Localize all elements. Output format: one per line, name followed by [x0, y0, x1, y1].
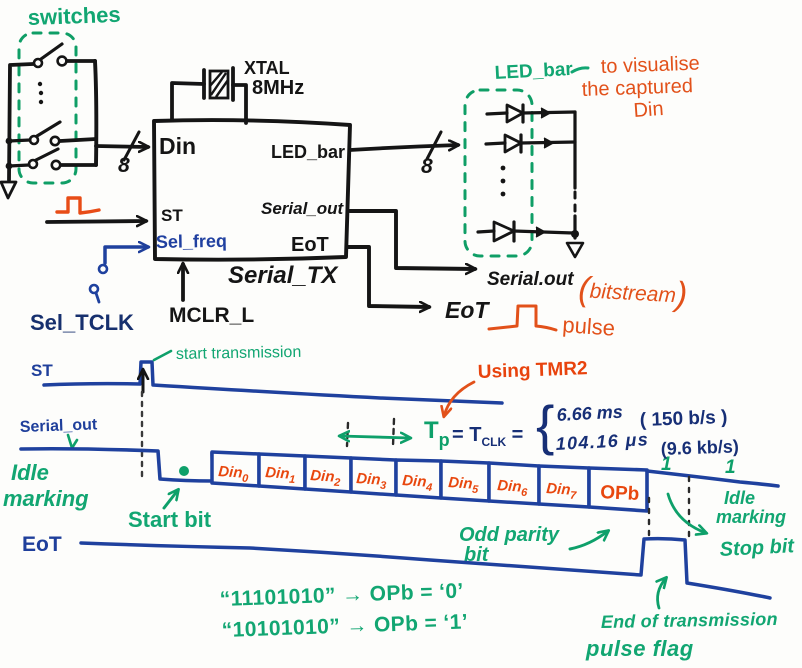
- LED D2: [486, 135, 575, 152]
- bit box Din2: [305, 456, 351, 492]
- svg-text:LED_bar: LED_bar: [271, 142, 345, 162]
- svg-text:Start bit: Start bit: [128, 507, 212, 532]
- pulse icon ST (orange): [57, 198, 99, 213]
- svg-text:marking: marking: [3, 486, 89, 511]
- svg-text:start transmission: start transmission: [176, 344, 302, 363]
- svg-text:End of transmission: End of transmission: [601, 609, 778, 632]
- wire ST arrow: [47, 221, 146, 222]
- wire left rail: [9, 64, 33, 180]
- arrow ST rising edge: [142, 370, 145, 392]
- wire S2 to rail: [60, 139, 96, 141]
- svg-text:8MHz: 8MHz: [252, 77, 304, 99]
- svg-text:to visualise: to visualise: [600, 53, 700, 78]
- svg-text:( 150 b/s ): ( 150 b/s ): [639, 407, 727, 431]
- LED D1: [487, 105, 575, 122]
- svg-text:EoT: EoT: [445, 297, 490, 323]
- svg-text:XTAL: XTAL: [244, 58, 290, 78]
- annotation start transmission arrow: [154, 351, 171, 360]
- wire switch S1 to right rail: [67, 59, 95, 63]
- guide dashed ST to start bit: [141, 392, 143, 478]
- wire Serial_out: [350, 211, 475, 269]
- wire S3 to rail: [61, 163, 96, 167]
- svg-text:MCLR_L: MCLR_L: [169, 304, 254, 327]
- bus width slash: [124, 132, 139, 160]
- svg-text:ST: ST: [161, 206, 183, 225]
- svg-text:the captured: the captured: [581, 75, 693, 101]
- waveform EoT: [81, 539, 770, 598]
- wire EoT: [347, 247, 429, 307]
- wire xtal right lead: [233, 85, 246, 123]
- svg-text:Stop bit: Stop bit: [719, 535, 796, 561]
- node junction S2: [6, 138, 13, 145]
- switch S1: [34, 44, 66, 67]
- svg-text:LED_bar: LED_bar: [494, 59, 574, 84]
- green tail stroke: [572, 68, 588, 72]
- wire cathode rail dashed: [574, 192, 577, 214]
- svg-text:Odd parity: Odd parity: [459, 524, 560, 546]
- switches enclosure (green dashed): [19, 33, 76, 183]
- svg-text:Din: Din: [159, 133, 196, 159]
- arrow odd parity to OPb: [570, 531, 608, 549]
- svg-text:Serial.out: Serial.out: [487, 269, 574, 290]
- waveform ST: [44, 362, 502, 403]
- svg-text:8: 8: [421, 155, 433, 178]
- svg-text:{: {: [536, 394, 554, 456]
- wire Din bus: [96, 146, 148, 147]
- svg-text:OPb: OPb: [600, 482, 640, 505]
- measure arrow Tp: [340, 436, 410, 438]
- svg-text:ST: ST: [31, 361, 53, 380]
- switch S3: [29, 149, 60, 169]
- guide dashed stop bit right: [688, 477, 690, 538]
- bit box Din4: [396, 460, 441, 498]
- svg-text:Sel_freq: Sel_freq: [156, 231, 227, 252]
- wire to S2: [9, 140, 30, 141]
- bit box Din0: [212, 452, 259, 486]
- crystal X1: [204, 68, 233, 100]
- wire cathode rail lower: [573, 216, 576, 238]
- tick dashed right: [393, 419, 394, 446]
- arrow to stop bit: [668, 494, 706, 533]
- guide dashed stop bit left: [648, 498, 650, 540]
- bit box Din3: [351, 458, 396, 495]
- wire MCLR_L arrow: [181, 264, 185, 300]
- svg-text:EoT: EoT: [291, 234, 329, 256]
- svg-text:Idle: Idle: [724, 488, 755, 508]
- node junction S3: [6, 163, 13, 170]
- wire LED_bar bus: [350, 145, 458, 150]
- LED D8: [478, 222, 573, 241]
- arrow to EoT pulse: [658, 578, 666, 608]
- wire to S3: [9, 165, 29, 166]
- wire Sel_freq (blue): [105, 247, 148, 263]
- svg-text:6.66 ms: 6.66 ms: [556, 402, 623, 425]
- arrow TMR2 to Tp: [444, 382, 474, 416]
- ellipsis dots: [38, 82, 43, 104]
- svg-text:1: 1: [725, 457, 736, 478]
- svg-text:Serial_out: Serial_out: [20, 416, 99, 436]
- wire xtal left lead: [172, 83, 204, 120]
- waveform Serial_out idle and start bit: [21, 449, 213, 481]
- svg-text:Sel_TCLK: Sel_TCLK: [30, 310, 134, 335]
- LED bar enclosure (green dashed): [465, 90, 532, 256]
- tick mark: [68, 435, 77, 448]
- svg-text:Serial_TX: Serial_TX: [228, 262, 339, 289]
- ground: [1, 182, 16, 198]
- svg-text:switches: switches: [27, 2, 121, 30]
- switch S2: [30, 122, 60, 145]
- svg-text:8: 8: [118, 154, 130, 177]
- svg-text:Din: Din: [633, 98, 664, 122]
- svg-text:Serial_out: Serial_out: [261, 199, 345, 218]
- bit box Din1: [259, 454, 305, 489]
- node start bit dot: [179, 466, 189, 476]
- bit box Din5: [441, 461, 489, 501]
- bit box OPb: [589, 468, 647, 511]
- svg-text:EoT: EoT: [22, 533, 62, 556]
- svg-text:marking: marking: [716, 507, 786, 527]
- svg-text:pulse: pulse: [562, 312, 616, 341]
- waveform idle after OPb: [647, 471, 778, 486]
- ellipsis dots: [501, 166, 506, 197]
- bus width slash: [427, 132, 441, 159]
- svg-text:Using TMR2: Using TMR2: [477, 358, 587, 383]
- block U1 Serial_TX: [154, 120, 350, 260]
- node junction rail: [571, 230, 579, 238]
- wire right rail: [95, 61, 96, 165]
- pulse icon EoT (orange): [489, 306, 556, 330]
- svg-text:(9.6 kb/s): (9.6 kb/s): [660, 436, 739, 459]
- svg-text:pulse flag: pulse flag: [585, 636, 694, 661]
- svg-text:Idle: Idle: [11, 460, 49, 485]
- wire cathode rail: [573, 112, 576, 188]
- switch Sel_TCLK: [90, 265, 107, 302]
- bit box Din7: [539, 466, 589, 507]
- annotation Start bit arrow: [164, 490, 178, 508]
- bit box Din6: [489, 463, 539, 504]
- ground: [567, 243, 583, 257]
- tick dashed left: [347, 423, 348, 446]
